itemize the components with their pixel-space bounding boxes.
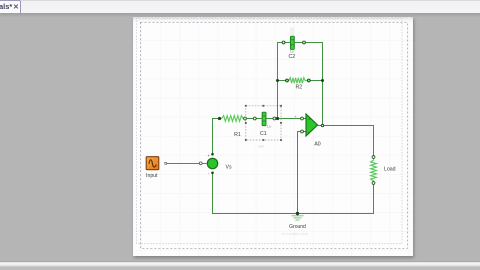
- capacitor C2 value ghost: [290, 28, 294, 36]
- svg-text:Ground: Ground: [289, 224, 306, 230]
- terminal Load bottom: [372, 182, 375, 185]
- terminal Load top: [372, 156, 375, 159]
- wire op-amp minus to ground rail: [298, 132, 303, 214]
- terminal R1 right: [244, 117, 247, 120]
- wire Vs top to R1: [213, 119, 220, 155]
- terminal C1 right: [273, 117, 276, 120]
- svg-text:ni.multisim.live: ni.multisim.live: [282, 231, 309, 236]
- junction R2 left vertical: [276, 79, 279, 82]
- svg-text:+: +: [295, 115, 297, 119]
- svg-text:-: -: [208, 171, 210, 176]
- op-amp A0: [302, 114, 323, 148]
- svg-text:1uF: 1uF: [258, 145, 265, 149]
- svg-text:R2: R2: [295, 85, 302, 91]
- voltage source Vs: [207, 153, 232, 176]
- ground: [289, 214, 306, 231]
- svg-text:Vs: Vs: [226, 165, 232, 171]
- terminal C2 left: [282, 41, 285, 44]
- terminal Vs bottom: [211, 172, 214, 175]
- terminal Vs top: [211, 153, 214, 156]
- svg-text:A0: A0: [314, 142, 320, 148]
- wire Load bottom: [213, 173, 374, 214]
- terminal op-amp plus: [301, 117, 304, 120]
- svg-text:R1: R1: [234, 132, 241, 138]
- terminal R2 left: [286, 79, 289, 82]
- wire probe to Vs (orange): [167, 163, 207, 165]
- load resistor: [371, 157, 396, 183]
- wire feedback left vertical: [278, 43, 284, 119]
- junction R2 right vertical: [321, 79, 324, 82]
- resistor R2: [287, 78, 309, 91]
- svg-text:1u: 1u: [267, 125, 271, 129]
- svg-text:Load: Load: [384, 166, 396, 172]
- capacitor C2: [284, 36, 305, 60]
- svg-text:1u: 1u: [290, 50, 294, 54]
- sheet margin dotted (light): [137, 19, 403, 244]
- terminal R2 right: [307, 79, 310, 82]
- svg-text:C2: C2: [288, 54, 295, 60]
- resistor R1: [220, 116, 246, 138]
- terminal C1 left: [253, 117, 256, 120]
- junction node A: [276, 117, 279, 120]
- junction ground: [296, 212, 299, 215]
- sheet border dashed (gray): [141, 23, 408, 249]
- input probe: [146, 157, 202, 179]
- wire op-amp output to Load: [323, 126, 374, 158]
- terminal op-amp output junction: [321, 124, 324, 127]
- wire C1 to op-amp: [275, 118, 303, 120]
- selection box around C1: [245, 105, 282, 141]
- capacitor C1: [255, 112, 275, 148]
- tab bar: [0, 0, 480, 14]
- svg-text:C1: C1: [260, 131, 267, 137]
- status bar: [0, 261, 480, 270]
- terminal op-amp minus: [301, 130, 304, 133]
- terminal R1 left (junction): [218, 117, 221, 120]
- wire C2 right to output vertical: [304, 43, 323, 126]
- schematic sheet: [133, 17, 413, 256]
- terminal C2 right: [303, 41, 306, 44]
- wire R1 to C1: [245, 118, 255, 120]
- svg-text:Input: Input: [146, 173, 158, 179]
- wire R2 left lead: [277, 80, 287, 82]
- wire R2 right lead: [309, 80, 323, 82]
